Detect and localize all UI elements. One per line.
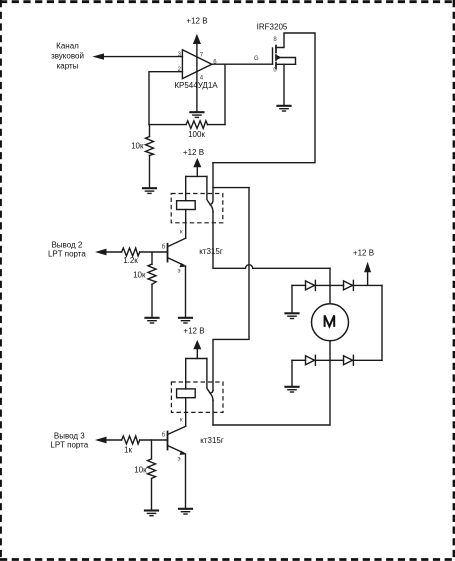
svg-text:100к: 100к: [188, 130, 205, 139]
svg-text:б: б: [162, 245, 166, 251]
svg-text:10к: 10к: [133, 271, 146, 280]
svg-text:КР544УД1А: КР544УД1А: [174, 81, 218, 90]
svg-text:к: к: [180, 418, 183, 424]
svg-text:э: э: [178, 269, 181, 275]
svg-text:+12 В: +12 В: [183, 148, 204, 157]
svg-text:10к: 10к: [134, 465, 147, 474]
svg-text:звуковой: звуковой: [51, 51, 84, 60]
svg-text:кт315г: кт315г: [199, 247, 223, 256]
svg-text:+12 В: +12 В: [183, 327, 204, 336]
svg-text:1.2к: 1.2к: [123, 256, 138, 265]
svg-text:карты: карты: [57, 61, 79, 70]
svg-text:б: б: [162, 433, 166, 439]
svg-text:LPT порта: LPT порта: [48, 249, 86, 258]
svg-text:э: э: [178, 457, 181, 463]
svg-text:+12 В: +12 В: [353, 249, 374, 258]
svg-text:IRF3205: IRF3205: [257, 23, 288, 32]
svg-text:Вывод 2: Вывод 2: [51, 240, 82, 249]
svg-text:10к: 10к: [131, 142, 144, 151]
svg-text:G: G: [254, 56, 259, 62]
svg-text:Вывод 3: Вывод 3: [54, 432, 85, 441]
svg-text:к: к: [180, 230, 183, 236]
svg-text:Канал: Канал: [56, 41, 79, 50]
svg-text:+12 В: +12 В: [186, 16, 207, 25]
svg-text:1к: 1к: [124, 446, 132, 455]
svg-text:LPT порта: LPT порта: [50, 441, 88, 450]
svg-text:кт315г: кт315г: [200, 436, 224, 445]
